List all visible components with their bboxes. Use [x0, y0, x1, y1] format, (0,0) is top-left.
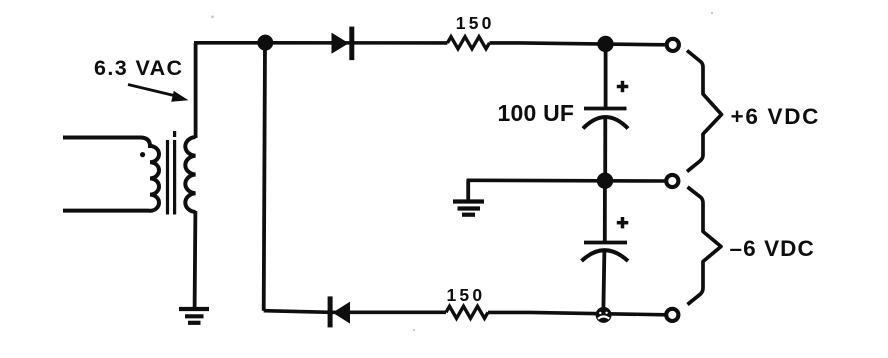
capacitor C2: top lead wire — [603, 181, 607, 243]
capacitor C1 100 UF: top lead wire — [604, 44, 608, 109]
resistor R2 150 (bottom) — [446, 306, 488, 318]
transformer T1 primary winding — [63, 138, 159, 211]
diode CR1 (top, pointing right) — [332, 27, 355, 61]
wire secondary top lead to top rail corner — [194, 43, 198, 138]
svg-text:6.3 VAC: 6.3 VAC — [94, 56, 183, 80]
ground G2 middle — [466, 181, 470, 202]
speck artifacts — [211, 12, 713, 331]
node junction dot middle — [597, 173, 613, 189]
ground G1 below transformer — [179, 309, 209, 323]
capacitor C1 bottom lead wire — [603, 116, 607, 181]
wire left vertical from top junction to bottom rail — [264, 43, 265, 311]
wire middle rail — [467, 179, 667, 183]
terminal circle +6 output — [667, 39, 679, 51]
capacitor C1 plus sign — [617, 81, 629, 92]
wire top rail — [194, 43, 667, 45]
node junction dot bottom — [596, 307, 612, 323]
svg-text:+6 VDC: +6 VDC — [731, 104, 821, 129]
capacitor C2 plus sign — [617, 217, 629, 228]
node junction dot top-left — [257, 35, 273, 51]
node junction dot top-right — [597, 36, 613, 52]
wire secondary bottom lead down to ground — [193, 211, 198, 308]
capacitor C2 bottom lead wire — [603, 250, 604, 315]
svg-text:150: 150 — [447, 285, 486, 305]
svg-text:–6 VDC: –6 VDC — [730, 236, 815, 261]
svg-text:100 UF: 100 UF — [498, 100, 575, 126]
capacitor C1 curved plate — [583, 117, 628, 129]
transformer T1 core — [168, 131, 175, 215]
terminal circle common output — [666, 175, 678, 187]
brace for +6 VDC — [687, 51, 722, 172]
capacitor C2 positive plate — [584, 241, 627, 245]
svg-text:150: 150 — [456, 13, 495, 33]
wire bottom rail — [264, 311, 667, 315]
resistor R1 150 (top) — [448, 37, 490, 49]
terminal circle -6 output — [666, 309, 678, 321]
brace for -6 VDC — [688, 187, 722, 305]
capacitor C1 positive plate — [584, 107, 627, 111]
transformer T1 secondary winding — [185, 137, 195, 212]
capacitor C2 curved plate — [582, 250, 629, 261]
diode CR2 (bottom, pointing left) — [328, 296, 350, 327]
transformer T1 phase dot — [140, 152, 145, 157]
arrow from 6.3 VAC label to wire — [128, 85, 174, 96]
